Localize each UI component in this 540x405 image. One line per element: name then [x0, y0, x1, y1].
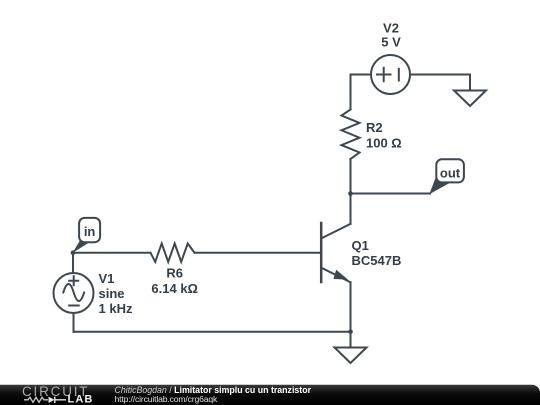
logo squiggle resistor	[24, 397, 48, 402]
voltage source V2	[371, 55, 410, 94]
wire V2 left to R2 top	[351, 75, 372, 110]
wire R6 to base	[195, 252, 322, 254]
svg-text:1 kHz: 1 kHz	[99, 301, 133, 316]
svg-text:Q1: Q1	[352, 238, 369, 253]
resistor R6	[151, 244, 195, 262]
wire V2 right to ground	[410, 75, 470, 91]
resistor R2	[342, 110, 360, 160]
node junction collector/out	[348, 191, 353, 196]
wire node down to collector elbow	[350, 194, 352, 224]
svg-text:6.14 kΩ: 6.14 kΩ	[151, 281, 198, 296]
wire in node down to V1	[72, 253, 74, 273]
node junction in	[71, 250, 76, 255]
ground bottom	[335, 348, 367, 364]
svg-text:LAB: LAB	[68, 394, 94, 405]
svg-text:100 Ω: 100 Ω	[366, 136, 402, 151]
svg-text:http://circuitlab.com/crg6aqk: http://circuitlab.com/crg6aqk	[115, 394, 218, 404]
svg-text:sine: sine	[99, 286, 125, 301]
wire R2 bottom to node	[350, 159, 352, 194]
wire emitter down to bottom node	[350, 282, 352, 332]
svg-text:5 V: 5 V	[381, 35, 401, 50]
node bottom junction	[348, 330, 353, 335]
svg-text:BC547B: BC547B	[352, 253, 402, 268]
logo squiggle diode	[49, 397, 55, 403]
voltage source V1	[54, 273, 94, 313]
wire V1 bottom to rail	[73, 313, 75, 332]
svg-text:in: in	[84, 224, 96, 239]
node in flag	[73, 218, 100, 253]
svg-text:R2: R2	[366, 120, 383, 135]
transistor Q1	[321, 223, 350, 282]
wire node to out flag	[351, 193, 431, 195]
svg-text:R6: R6	[166, 266, 183, 281]
wire bottom node to ground	[350, 332, 352, 348]
svg-text:out: out	[440, 166, 461, 181]
wire bottom rail	[74, 331, 351, 333]
node out flag	[429, 159, 464, 194]
wire in node to R6	[73, 252, 151, 254]
ground near V2	[454, 91, 486, 107]
svg-text:V1: V1	[99, 271, 115, 286]
svg-text:V2: V2	[383, 21, 399, 36]
